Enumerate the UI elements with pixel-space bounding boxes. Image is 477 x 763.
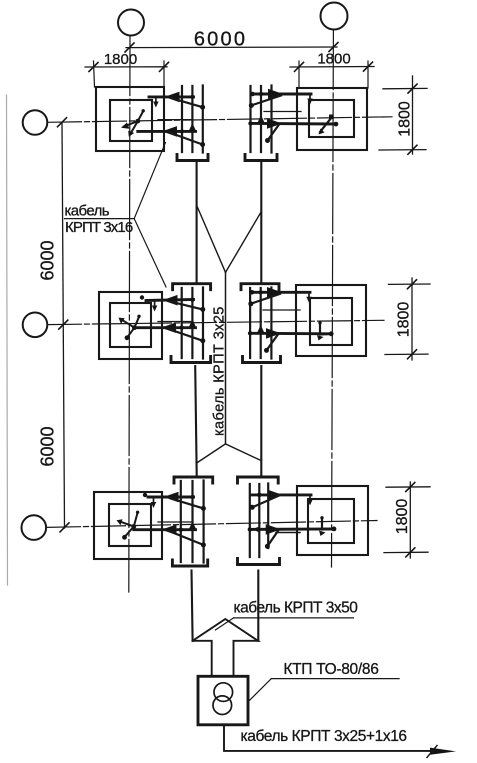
structure S2L upper branch triangle — [164, 296, 177, 305]
structure S3R lower branch triangle — [266, 525, 279, 534]
structure S2L vertical line 1 — [181, 288, 183, 358]
structure S1R lower diagonal end dot — [265, 138, 270, 143]
svg-text:1800: 1800 — [394, 499, 411, 535]
unit U1R inner square — [309, 100, 354, 137]
structure S1L upper diagonal end dot — [200, 105, 205, 110]
cable lambda-branch right wire — [226, 444, 260, 460]
structure S1L vertical line 1 — [181, 86, 183, 152]
svg-text:1800: 1800 — [104, 51, 137, 68]
label КТП underline — [271, 678, 399, 680]
structure S2R upper stub wire — [308, 292, 310, 299]
axis circle left B1 — [23, 110, 48, 135]
extension line 1800L b — [163, 61, 165, 87]
unit U2L inner square — [110, 303, 151, 347]
structure S3R upper stub wire — [309, 495, 311, 502]
feeder wire F2L — [195, 366, 197, 475]
structure S1R vertical line 1 — [249, 86, 251, 152]
structure S2L lower branch triangle — [163, 323, 176, 332]
junction dot S1R upper — [259, 92, 263, 96]
unit U3L inner square — [109, 504, 151, 546]
structure S3R lower branch second wire — [276, 532, 300, 534]
junction dot S3L lower — [179, 528, 183, 532]
unit U3R inner square — [308, 499, 354, 543]
right vertical dim row2 bottom tick — [385, 353, 428, 355]
structure S3L upper branch start dot — [143, 493, 147, 497]
structure S3R upper diagonal wire — [252, 495, 281, 508]
structure S1R lower up-triangle — [258, 116, 265, 123]
unit U3R outer square — [297, 486, 368, 555]
structure S3L upper diagonal end dot — [201, 506, 206, 511]
structure S1L vertical line 3 — [202, 86, 204, 153]
feeder wire F3R — [257, 571, 259, 641]
axis circle top A1 — [118, 10, 144, 36]
structure S3L upper diagonal wire — [171, 499, 204, 509]
structure S2R lower up-triangle — [257, 326, 264, 333]
structure S2L top bracket — [173, 284, 211, 290]
unit U3L symbol ray SW end dot — [122, 535, 127, 540]
structure S3L upper branch triangle — [165, 492, 178, 501]
structure S2R middle thin wire — [263, 309, 300, 311]
unit U1L symbol center dot — [135, 119, 140, 124]
row axis line 3 (dash-dot horizontal) — [47, 521, 378, 528]
left vertical dimension line 6000s — [62, 122, 65, 528]
svg-text:1800: 1800 — [317, 51, 350, 68]
unit U1L outer square — [96, 87, 164, 151]
unit U3R symbol center dot — [332, 527, 337, 532]
structure S2R upper branch wire — [252, 291, 311, 294]
structure S3R lower branch start dot — [256, 527, 261, 532]
cable V-branch left wire — [197, 206, 226, 272]
structure S1R upper diagonal end dot — [249, 103, 254, 108]
svg-text:кабель КРПТ 3x25+1x16: кабель КРПТ 3x25+1x16 — [241, 728, 407, 745]
dimension line 1800 top-right — [290, 66, 374, 69]
unit U3R symbol stem — [322, 519, 334, 530]
structure S2R vertical line 2 — [260, 288, 262, 358]
structure S1L upper branch triangle — [166, 92, 179, 101]
junction dot S3L upper — [190, 495, 194, 499]
structure S1L middle thin wire — [158, 119, 193, 121]
svg-text:1800: 1800 — [396, 302, 413, 338]
unit U1R symbol ray SW arrowhead — [319, 129, 325, 135]
structure S3R bottom bracket — [238, 559, 280, 565]
unit U2R symbol arrowhead down — [317, 335, 324, 341]
tick slash left dim row2 — [59, 320, 68, 329]
structure S3R lower branch wire — [250, 527, 334, 530]
structure S2L bottom bracket — [171, 357, 211, 363]
tick slash left dim row1 — [58, 118, 67, 127]
structure S1R lower diagonal wire — [268, 125, 280, 141]
outgoing cable slash tick — [427, 746, 437, 758]
unit U2L symbol ray NE end dot — [137, 315, 140, 318]
label КТП leader wire — [250, 679, 272, 701]
unit U1L symbol ray W with arrow — [124, 121, 138, 126]
structure S2L vertical line 2 — [191, 288, 193, 358]
svg-text:кабель: кабель — [65, 203, 110, 220]
svg-text:6000: 6000 — [38, 240, 58, 280]
row axis line 1 (dash-dot horizontal) — [48, 117, 393, 123]
unit U3L symbol ray NW arrowhead — [117, 519, 123, 525]
structure S3L vertical line 2 — [191, 481, 193, 562]
label 3x50 leader wire — [216, 618, 234, 630]
structure S1R lower branch triangle — [268, 119, 281, 128]
structure S3L vertical line 1 — [180, 481, 182, 562]
unit U1R outer square — [297, 88, 367, 150]
dimension line 1800 top-left — [85, 66, 167, 68]
structure S1R upper branch start dot — [250, 92, 255, 97]
structure S3L bottom bracket — [172, 560, 207, 566]
structure S2L lower diagonal wire — [169, 329, 204, 341]
right vertical dim row2 slash a — [408, 280, 417, 289]
big arrow outline up — [193, 619, 258, 676]
unit U1L symbol ray SW with dot — [130, 121, 138, 134]
axis circle left B2 — [23, 313, 48, 338]
unit U1R symbol square dot — [329, 115, 334, 120]
tick slash left of 6000 dim — [125, 43, 134, 52]
structure S2R upper stub arrowhead — [306, 297, 311, 303]
structure S1R vertical line 2 — [260, 86, 262, 152]
extension line 1800R a — [298, 61, 300, 88]
structure S2L upper diagonal wire — [170, 302, 203, 310]
structure S1R lower branch wire — [251, 122, 336, 125]
structure S2L upper stub wire — [154, 301, 156, 308]
structure S1L lower up-triangle — [189, 124, 196, 131]
structure S3L upper branch wire — [148, 496, 194, 499]
right vertical dim row3 slash b — [406, 548, 415, 557]
junction dot S1L lower — [180, 129, 184, 133]
svg-text:1800: 1800 — [397, 101, 414, 137]
structure S1L lower branch wire — [138, 130, 196, 133]
junction dot S2R upper — [259, 290, 263, 294]
unit U3L symbol ray NE end dot — [136, 511, 139, 514]
scan edge artifact line left — [7, 95, 8, 585]
structure S3R upper branch start dot — [257, 493, 262, 498]
unit U3L symbol ray NE — [134, 513, 138, 527]
structure S2R vertical line 3 — [270, 288, 272, 359]
label leader to row1 wire — [134, 143, 165, 219]
structure S1R upper branch triangle — [269, 89, 282, 98]
structure S2L middle thin wire — [158, 321, 193, 323]
tick slash left dim row3 — [60, 523, 69, 532]
transformer circle lower — [213, 696, 232, 715]
unit U3L symbol ray NW with arrow — [120, 522, 134, 527]
outgoing cable wire down — [224, 725, 441, 751]
unit U3R symbol top dot — [320, 516, 323, 519]
structure S2R bottom bracket — [243, 357, 281, 363]
right vertical dim row2 top tick — [389, 283, 431, 285]
junction dot S1L upper — [190, 95, 194, 99]
svg-text:кабель КРПТ 3x50: кабель КРПТ 3x50 — [234, 600, 359, 617]
structure S3R upper branch wire — [251, 493, 311, 496]
structure S3R lower diagonal end dot — [265, 544, 270, 549]
column axis line 2 (vertical dash-dot) — [332, 30, 334, 568]
structure S3R upper branch triangle — [268, 490, 281, 499]
right vertical dim row3 top tick — [386, 486, 430, 488]
structure S2L upper branch start dot — [140, 295, 144, 299]
svg-text:6000: 6000 — [38, 426, 58, 466]
structure S1R middle thin wire — [264, 111, 301, 113]
structure S3R upper diagonal end dot — [250, 505, 255, 510]
right vertical dim row2 slash b — [408, 350, 417, 359]
junction dot S2L upper — [190, 298, 194, 302]
unit U2R inner square — [310, 298, 352, 345]
structure S3R vertical line 3 — [267, 484, 269, 549]
structure S2L lower diagonal end dot — [200, 338, 205, 343]
structure S2R lower diagonal end dot — [264, 348, 269, 353]
unit U1R symbol center dot — [334, 122, 339, 127]
right vertical dim row1 bottom tick — [379, 149, 426, 151]
svg-text:КТП ТО-80/86: КТП ТО-80/86 — [283, 661, 378, 678]
tick slash 1800R a — [295, 62, 304, 71]
feeder wire F3L — [192, 571, 193, 641]
unit U1L inner square — [110, 100, 152, 141]
unit U2L symbol ray NW with arrow — [122, 320, 135, 328]
unit U2L symbol center dot — [132, 325, 137, 330]
junction dot S3R lower — [248, 527, 252, 531]
structure S3L vertical line 3 — [203, 481, 205, 563]
unit U3L outer square — [94, 492, 162, 559]
extension line 1800L a — [94, 61, 95, 87]
right vertical dim row1 line — [412, 76, 414, 154]
structure S2L lower branch wire — [134, 326, 195, 329]
tick slash 1800R b — [364, 62, 373, 71]
structure S2R upper branch triangle — [268, 288, 281, 297]
junction dot S2L lower — [180, 326, 184, 330]
unit U2R symbol center dot — [329, 331, 334, 336]
feeder wire F2R — [260, 366, 262, 475]
structure S2R lower branch triangle — [267, 329, 280, 338]
unit U3L symbol center dot — [131, 524, 136, 529]
extension line 1800R b — [367, 61, 369, 88]
structure S2R upper diagonal wire — [251, 294, 280, 304]
structure S2L upper diagonal end dot — [200, 307, 205, 312]
tick slash right of 6000 dim — [329, 43, 338, 52]
unit U2L symbol ray SW with dot — [128, 328, 135, 337]
right vertical dim row1 slash a — [408, 84, 417, 93]
right vertical dim row1 slash b — [408, 145, 417, 154]
cable trunk wire (КРПТ 3x25) — [225, 272, 227, 444]
feeder wire F1R — [260, 161, 262, 284]
unit U2L symbol ray SW end dot — [125, 335, 130, 340]
unit U2L symbol ray NE — [134, 317, 139, 328]
junction dot S1R lower — [248, 121, 252, 125]
label 3x50 underline — [234, 617, 354, 619]
structure S1L vertical line 2 — [191, 86, 193, 152]
svg-text:кабель КРПТ 3x25: кабель КРПТ 3x25 — [212, 306, 228, 436]
structure S2R upper branch start dot — [250, 290, 255, 295]
structure S3R vertical line 1 — [249, 484, 251, 557]
right vertical dim row3 slash a — [406, 483, 415, 492]
structure S2R top bracket — [241, 284, 279, 290]
structure S3L lower diagonal end dot — [201, 542, 206, 547]
structure S3L upper stub arrowhead — [151, 502, 156, 508]
unit U1L symbol ray W arrowhead — [121, 123, 130, 129]
outgoing cable arrowhead — [430, 748, 456, 755]
structure S2L upper branch wire — [146, 300, 194, 301]
structure S1L bottom bracket — [177, 155, 208, 161]
structure S3L middle thin wire — [158, 521, 193, 523]
structure S1L lower diagonal wire — [170, 133, 203, 145]
cable V-branch right wire — [226, 212, 261, 272]
right vertical dim row2 line — [411, 278, 413, 360]
svg-text:КРПТ 3x16: КРПТ 3x16 — [65, 219, 133, 236]
structure S1R bottom bracket — [245, 155, 277, 161]
tick slash 1800L b — [160, 62, 169, 71]
unit U3R symbol arrowhead down — [319, 531, 326, 537]
transformer KTP box — [198, 676, 248, 725]
structure S3R top bracket — [238, 477, 279, 483]
structure S1R upper branch wire — [252, 93, 311, 96]
unit U1R symbol diagonal — [320, 118, 332, 133]
structure S2R upper diagonal end dot — [248, 301, 253, 306]
structure S2R lower diagonal wire — [267, 334, 279, 350]
structure S2R lower branch wire — [250, 332, 331, 335]
axis circle left B3 — [22, 515, 47, 540]
structure S1L upper stub arrowhead — [153, 102, 158, 108]
right vertical dim row1 top tick — [383, 87, 427, 89]
structure S3L lower branch triangle — [163, 525, 176, 534]
structure S1L lower branch triangle — [164, 127, 177, 136]
svg-text:6000: 6000 — [194, 29, 247, 51]
dimension line 6000 top — [126, 46, 337, 49]
structure S2L upper stub arrowhead — [152, 306, 157, 312]
structure S3R vertical line 2 — [258, 484, 260, 557]
structure S1R vertical line 3 — [270, 86, 272, 153]
unit U2R symbol stem — [320, 324, 331, 335]
unit U1L symbol ray NE — [138, 112, 143, 122]
structure S1R upper stub arrowhead — [307, 99, 312, 105]
structure S1L upper stub wire — [155, 97, 157, 104]
structure S2R vertical line 1 — [249, 288, 251, 358]
structure S2L vertical line 3 — [202, 288, 204, 359]
structure S1L lower diagonal end dot — [200, 142, 205, 147]
unit U1L symbol ray SW arrowhead — [128, 131, 134, 137]
unit U2R outer square — [296, 285, 366, 356]
structure S1R upper stub wire — [309, 94, 311, 101]
structure S3R upper stub arrowhead — [307, 499, 312, 505]
column axis line 1 (vertical dash-dot) — [129, 36, 130, 593]
structure S1L upper branch wire — [149, 95, 194, 98]
unit U3L symbol ray SW with dot — [125, 527, 134, 537]
label leader underline — [65, 218, 135, 220]
structure S3L lower up-triangle — [189, 523, 196, 530]
structure S3L lower branch wire — [134, 528, 196, 531]
structure S3L top bracket — [174, 477, 213, 483]
unit U2L outer square — [99, 292, 162, 359]
transformer circle upper — [214, 683, 233, 702]
row axis line 2 (dash-dot horizontal) — [48, 320, 385, 324]
structure S3L upper stub wire — [153, 498, 155, 505]
structure S3L lower diagonal wire — [169, 531, 204, 545]
junction dot S2R lower — [248, 331, 252, 335]
structure S1L upper diagonal wire — [171, 98, 203, 107]
unit U1L symbol ray NE end dot — [142, 109, 145, 112]
cable lambda-branch left wire — [197, 444, 226, 463]
label leader to row2 wire — [134, 219, 166, 287]
right vertical dim row3 line — [409, 482, 411, 558]
feeder wire F1L — [196, 161, 198, 284]
unit U2L symbol ray NW arrowhead — [119, 318, 125, 324]
axis circle top A2 — [321, 3, 348, 30]
structure S1R upper diagonal wire — [251, 96, 281, 106]
right vertical dim row3 bottom tick — [384, 551, 428, 553]
structure S2L lower up-triangle — [189, 321, 196, 328]
structure S3R lower diagonal wire — [267, 530, 278, 546]
tick slash 1800L a — [89, 63, 98, 72]
unit U2R symbol top dot — [318, 321, 321, 324]
